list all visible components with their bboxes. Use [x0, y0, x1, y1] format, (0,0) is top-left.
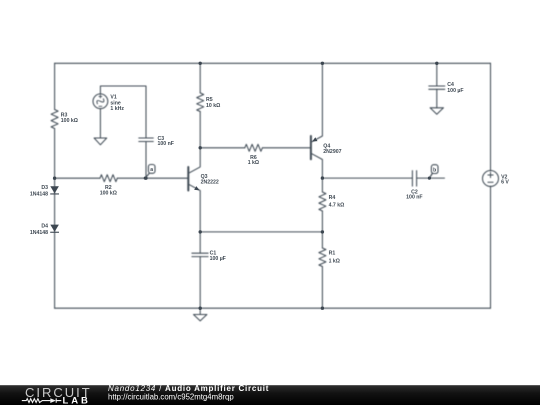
transistor Q4 emitter lead: [312, 63, 323, 142]
svg-text:R4: R4: [329, 195, 336, 201]
voltage source V2 circle: [483, 171, 499, 187]
svg-text:1 kΩ: 1 kΩ: [329, 258, 340, 264]
capacitor C2: [412, 171, 416, 187]
wire bottom rail: [55, 307, 491, 309]
svg-text:1N4148: 1N4148: [30, 192, 48, 198]
transistor Q4 base bar: [310, 136, 312, 159]
wire left rail to R2: [55, 177, 100, 179]
flag b attach dot: [428, 177, 431, 180]
wire R4 bottom: [321, 211, 323, 248]
wire R1 bottom: [321, 267, 323, 309]
svg-text:2N2907: 2N2907: [323, 149, 341, 155]
svg-text:100 µF: 100 µF: [210, 256, 226, 262]
wire node to R6: [200, 147, 245, 149]
wire right rail upper: [490, 63, 492, 171]
resistor R2: [100, 175, 117, 182]
flag node b tail: [430, 174, 433, 178]
ground under V1: [94, 138, 107, 145]
logo diode triangle: [50, 398, 56, 403]
wire left rail upper: [54, 63, 56, 109]
transistor Q3 collector lead: [189, 148, 200, 173]
svg-text:100 µF: 100 µF: [447, 88, 463, 94]
wire V1 bottom: [99, 109, 101, 138]
svg-text:10 kΩ: 10 kΩ: [206, 103, 220, 109]
node dot Q3 emitter junction: [199, 230, 202, 233]
svg-text:1N4148: 1N4148: [30, 230, 48, 236]
transistor Q3 emitter lead: [189, 184, 200, 232]
V1 minus sign: [99, 105, 102, 107]
wire R6 to Q4 base: [262, 147, 310, 149]
svg-text:http://circuitlab.com/c952mtg4: http://circuitlab.com/c952mtg4m8rqp: [108, 393, 234, 402]
V1 plus sign: [99, 95, 102, 98]
resistor R3: [51, 110, 58, 129]
resistor R1: [319, 248, 326, 267]
logo resistor squiggle: [22, 399, 51, 403]
wire R5 bottom to collector node: [199, 112, 201, 148]
voltage source V1 circle: [93, 94, 108, 109]
V1 sine glyph: [96, 97, 105, 106]
wire C2 right stub: [417, 177, 445, 179]
resistor R6: [245, 144, 263, 151]
capacitor C4: [429, 86, 445, 89]
node dot top rail Q4: [321, 62, 324, 65]
wire emitter junction to R4/R1 node: [200, 231, 322, 233]
capacitor C3: [139, 138, 154, 142]
resistor R5: [197, 93, 204, 112]
svg-text:4.7 kΩ: 4.7 kΩ: [329, 203, 345, 209]
svg-text:a: a: [150, 167, 153, 173]
wire C4 bottom: [436, 89, 438, 108]
wire V1 top loop: [100, 86, 146, 138]
V2 minus sign: [488, 181, 493, 183]
node dot C3 junction: [144, 177, 147, 180]
flag a attach dot: [144, 177, 147, 180]
svg-text:D3: D3: [41, 185, 48, 191]
wire right rail lower: [490, 186, 492, 308]
transistor Q3 emitter arrow: [194, 186, 199, 190]
svg-text:R1: R1: [329, 250, 336, 256]
svg-text:2N2222: 2N2222: [201, 179, 219, 185]
V2 plus sign: [488, 172, 493, 177]
svg-text:1 kHz: 1 kHz: [110, 106, 124, 112]
svg-text:6 V: 6 V: [501, 180, 509, 186]
node dot top rail R5: [199, 62, 202, 65]
wire output node to C2: [322, 177, 412, 179]
flag node a tail: [146, 173, 150, 177]
flag node b box: [431, 165, 438, 174]
node dot bottom rail ground: [199, 307, 202, 310]
ground main: [194, 308, 207, 321]
wire C1 to bottom rail: [199, 257, 201, 309]
svg-text:100 nF: 100 nF: [406, 195, 422, 201]
wire top rail: [55, 62, 491, 64]
svg-text:D4: D4: [41, 224, 48, 230]
wire Q3 emitter to C1: [199, 232, 201, 253]
svg-text:100 kΩ: 100 kΩ: [61, 118, 78, 124]
wire R4 top lead: [321, 178, 323, 192]
node dot Q3 collector: [199, 146, 202, 149]
ground under C4: [430, 108, 443, 114]
node dot R4 R1 junction: [321, 230, 324, 233]
svg-text:1 kΩ: 1 kΩ: [248, 160, 259, 166]
node dot top rail C4: [435, 62, 438, 65]
logo diode bar and line: [56, 398, 61, 402]
node dot Q4 collector output: [321, 176, 324, 179]
diode D3: [50, 186, 59, 193]
svg-text:100 nF: 100 nF: [158, 141, 174, 147]
svg-text:b: b: [433, 167, 436, 173]
wire R5 top lead: [199, 63, 201, 93]
wire R2 to Q3 base: [117, 177, 188, 179]
diode D4: [50, 225, 59, 232]
svg-text:LAB: LAB: [63, 396, 91, 405]
transistor Q4 emitter arrow: [312, 137, 317, 141]
node dot left rail R2: [53, 177, 56, 180]
wire left rail lower: [54, 129, 56, 309]
capacitor C1: [192, 253, 208, 256]
wire C3 bottom: [145, 142, 147, 179]
svg-text:100 kΩ: 100 kΩ: [100, 191, 117, 197]
transistor Q3 base bar: [187, 167, 189, 191]
flag node a box: [148, 165, 155, 174]
wire C4 top lead: [436, 63, 438, 86]
resistor R4: [319, 192, 326, 211]
transistor Q4 collector lead: [312, 154, 323, 179]
node dot bottom rail R1: [321, 307, 324, 310]
